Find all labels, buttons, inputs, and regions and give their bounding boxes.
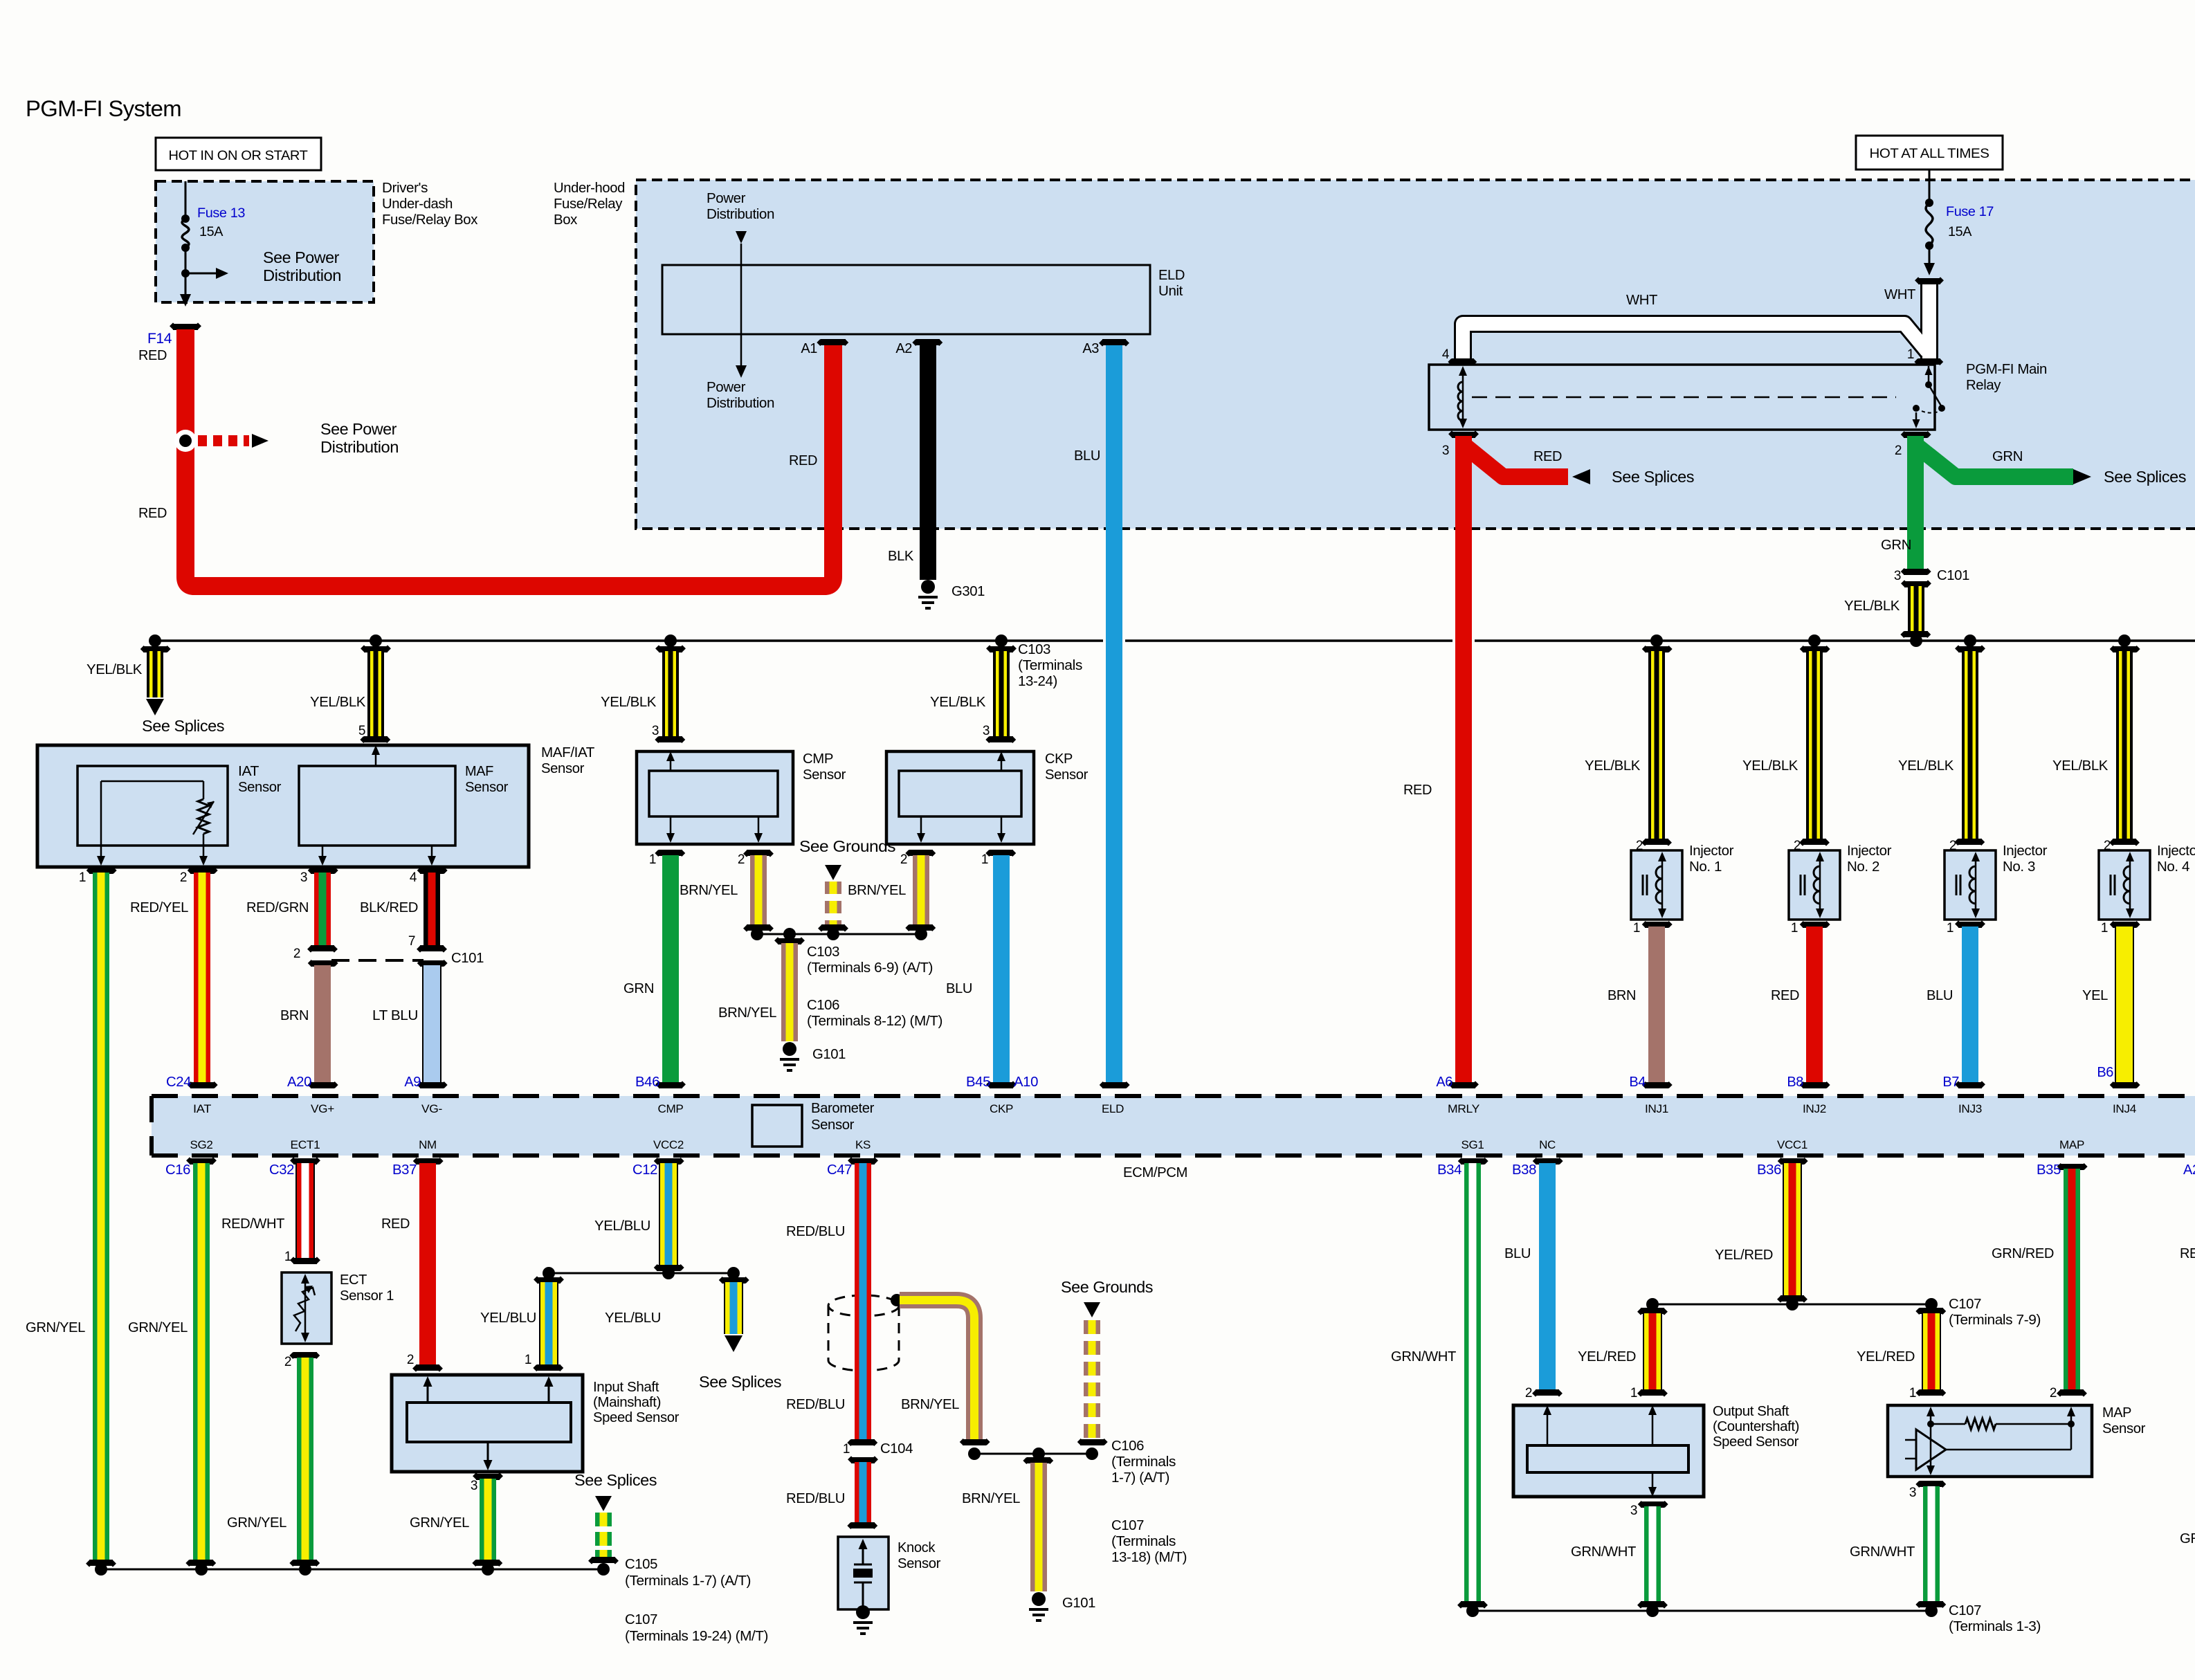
svg-text:Power: Power <box>707 380 746 395</box>
svg-text:CMP: CMP <box>803 751 833 767</box>
header HOT AT ALL TIMES <box>1856 136 2003 170</box>
svg-text:YEL/BLK: YEL/BLK <box>2052 758 2109 774</box>
svg-text:YEL/BLU: YEL/BLU <box>594 1218 650 1234</box>
wire YEL/BLK bus to CMP pin3 <box>664 634 677 647</box>
svg-text:B35: B35 <box>2037 1162 2061 1178</box>
svg-text:MAP: MAP <box>2102 1405 2131 1421</box>
svg-text:Distribution: Distribution <box>320 438 399 456</box>
svg-text:(Terminals 1-3): (Terminals 1-3) <box>1949 1619 2041 1634</box>
svg-text:(Terminals 6-9) (A/T): (Terminals 6-9) (A/T) <box>807 960 933 976</box>
svg-text:BRN: BRN <box>280 1008 309 1023</box>
svg-text:G101: G101 <box>812 1047 846 1062</box>
svg-text:C107: C107 <box>625 1612 657 1627</box>
svg-text:Unit: Unit <box>1158 284 1183 299</box>
svg-text:1: 1 <box>525 1353 531 1367</box>
svg-text:MAF/IAT: MAF/IAT <box>541 745 594 760</box>
svg-text:15A: 15A <box>1948 224 1971 239</box>
svg-text:(Mainshaft): (Mainshaft) <box>593 1395 661 1410</box>
wire LT BLU to A9 <box>417 960 448 967</box>
ground link line C103/C106 <box>757 933 921 935</box>
svg-text:GRN/WHT: GRN/WHT <box>1391 1349 1456 1364</box>
wire BLU injector3 to B7 <box>1962 926 1978 1082</box>
svg-text:Injector: Injector <box>2003 843 2048 859</box>
wire YEL/BLK bus to CKP pin3 <box>995 634 1008 647</box>
svg-text:HOT IN ON OR START: HOT IN ON OR START <box>169 148 308 163</box>
svg-text:B37: B37 <box>392 1162 417 1178</box>
svg-text:GRN: GRN <box>1992 449 2023 464</box>
svg-text:VG+: VG+ <box>311 1102 334 1115</box>
wire YEL/BLK bus to injector 3 <box>1964 634 1976 647</box>
svg-text:Fuse 17: Fuse 17 <box>1946 204 1994 219</box>
svg-text:A1: A1 <box>801 341 817 356</box>
CKP pin arrows <box>997 751 1005 761</box>
svg-text:See Splices: See Splices <box>574 1471 657 1489</box>
svg-text:(Terminals 19-24) (M/T): (Terminals 19-24) (M/T) <box>625 1629 768 1644</box>
svg-text:LT BLU: LT BLU <box>372 1008 418 1023</box>
dashed BRN/YEL C106 splice wire <box>1084 1302 1100 1317</box>
svg-text:GRN/YEL: GRN/YEL <box>128 1320 188 1335</box>
svg-text:Sensor: Sensor <box>803 767 846 783</box>
wire GRN/WHT MAP pin3 to bus <box>1915 1481 1946 1488</box>
svg-text:BRN/YEL: BRN/YEL <box>962 1491 1020 1506</box>
svg-text:15A: 15A <box>199 224 223 239</box>
Output Shaft (Countershaft) Speed Sensor box <box>1513 1405 1704 1497</box>
svg-text:B36: B36 <box>1757 1162 1781 1178</box>
wire RED F14 to A1 (power feed) <box>185 329 833 586</box>
svg-text:No. 2: No. 2 <box>1847 859 1879 875</box>
svg-text:Box: Box <box>554 212 577 228</box>
main YEL/BLK power bus <box>155 639 2195 642</box>
injector No. 3 box <box>1944 850 1996 920</box>
svg-text:SG2: SG2 <box>190 1138 213 1151</box>
MAF/IAT Sensor box <box>37 745 529 867</box>
svg-text:C101: C101 <box>451 951 484 966</box>
svg-text:GRN/YEL: GRN/YEL <box>26 1320 85 1335</box>
wire BLK A2 to G301 <box>920 345 936 580</box>
svg-text:NC: NC <box>1539 1138 1556 1151</box>
wire YEL/BLK C101 to bus <box>1908 586 1924 632</box>
Under-hood Fuse/Relay Box <box>636 180 2195 529</box>
wire BLK/RED pin4 <box>417 867 448 874</box>
svg-text:BLK: BLK <box>888 549 914 564</box>
svg-text:B6: B6 <box>2097 1065 2113 1080</box>
ground bus line (left) <box>101 1569 603 1571</box>
injector No. 2 box <box>1789 850 1840 920</box>
wire BRN injector1 to B4 <box>1648 926 1665 1082</box>
wire BRN/YEL CKP pin2 <box>905 850 936 857</box>
svg-text:PGM-FI Main: PGM-FI Main <box>1966 362 2047 377</box>
Barometer Sensor box <box>752 1105 802 1147</box>
svg-text:C107: C107 <box>1949 1603 1981 1618</box>
CKP inner box <box>899 771 1021 816</box>
svg-text:WHT: WHT <box>1626 293 1657 308</box>
svg-text:RED/WHT: RED/WHT <box>221 1216 284 1232</box>
svg-text:Under-hood: Under-hood <box>554 181 625 196</box>
svg-text:NM: NM <box>419 1138 437 1151</box>
svg-text:5: 5 <box>358 724 365 738</box>
svg-text:C107: C107 <box>1111 1518 1144 1533</box>
svg-text:Sensor: Sensor <box>1045 767 1089 783</box>
svg-text:C105: C105 <box>625 1557 657 1572</box>
svg-text:ELD: ELD <box>1102 1102 1124 1115</box>
wire BRN/YEL link to G101 <box>1023 1457 1053 1464</box>
YEL/BLU splice link line <box>549 1272 734 1275</box>
svg-text:C47: C47 <box>827 1162 852 1178</box>
svg-text:See Splices: See Splices <box>142 717 224 735</box>
svg-text:GRN: GRN <box>623 981 654 996</box>
relay switch contacts <box>1928 366 1930 382</box>
MAP internal opamp circuit <box>1927 1407 1935 1416</box>
svg-text:2: 2 <box>1895 444 1902 458</box>
svg-text:1: 1 <box>1791 921 1798 935</box>
svg-text:1: 1 <box>1907 347 1914 362</box>
svg-text:YEL/BLK: YEL/BLK <box>1585 758 1641 774</box>
svg-text:2: 2 <box>738 852 745 867</box>
svg-text:BRN/YEL: BRN/YEL <box>718 1005 776 1021</box>
svg-text:GRN/WHT: GRN/WHT <box>1571 1544 1636 1560</box>
svg-text:ECT: ECT <box>340 1272 367 1288</box>
svg-text:Sensor: Sensor <box>238 780 282 795</box>
svg-text:2: 2 <box>900 852 907 867</box>
svg-text:1: 1 <box>1633 921 1640 935</box>
svg-text:C103: C103 <box>807 944 839 960</box>
wire GRN/WHT output pin3 to bus <box>1638 1501 1668 1508</box>
relay PGM-FI Main Relay box <box>1429 365 1935 430</box>
wire GRN relay pin2 to C101 <box>1918 447 2073 477</box>
knock sensor capacitor symbol <box>859 1539 868 1549</box>
wire BLU A3 to ELD pin (A10) <box>1106 345 1122 1082</box>
svg-text:YEL/BLK: YEL/BLK <box>1898 758 1954 774</box>
svg-text:GRN/WHT: GRN/WHT <box>1850 1544 1915 1560</box>
svg-text:G101: G101 <box>1062 1596 1095 1611</box>
wire RED/BLU C104 to knock sensor <box>855 1462 871 1524</box>
Knock Sensor box <box>838 1537 889 1609</box>
svg-text:RED/BLU: RED/BLU <box>786 1224 845 1239</box>
output shaft inner box <box>1527 1445 1688 1472</box>
svg-text:Driver's: Driver's <box>382 181 428 196</box>
svg-text:Sensor: Sensor <box>2102 1421 2146 1436</box>
svg-text:B38: B38 <box>1512 1162 1536 1178</box>
svg-text:C32: C32 <box>269 1162 294 1178</box>
svg-text:YEL/BLK: YEL/BLK <box>310 695 366 710</box>
dashed red arrow See Power Distribution <box>198 435 249 446</box>
relay coil <box>1462 373 1464 422</box>
output shaft pin arrows <box>1543 1405 1551 1415</box>
svg-text:F14: F14 <box>147 331 172 347</box>
svg-text:7: 7 <box>408 934 415 949</box>
svg-text:IAT: IAT <box>193 1102 211 1115</box>
Driver's Under-dash Fuse/Relay Box <box>156 181 374 302</box>
svg-text:3: 3 <box>652 724 659 738</box>
svg-text:RED: RED <box>138 348 167 363</box>
wire RED/YEL pin2 to C24 <box>188 867 218 874</box>
svg-text:MAP: MAP <box>2059 1138 2084 1151</box>
svg-text:See Splices: See Splices <box>699 1373 781 1391</box>
ground G101 (bottom) <box>1032 1592 1046 1606</box>
svg-text:C12: C12 <box>632 1162 657 1178</box>
wire BRN/YEL to G101 <box>774 937 805 944</box>
wire YEL/BLK to MAF pin 5 <box>370 634 382 647</box>
svg-text:3: 3 <box>1894 569 1901 583</box>
header HOT IN ON OR START <box>156 138 321 170</box>
svg-text:Fuse 13: Fuse 13 <box>197 206 245 221</box>
ground G101 <box>783 1042 796 1056</box>
svg-text:BRN: BRN <box>1607 988 1636 1003</box>
svg-text:A20: A20 <box>287 1075 311 1090</box>
svg-text:(Countershaft): (Countershaft) <box>1713 1419 1799 1434</box>
svg-text:CKP: CKP <box>990 1102 1013 1115</box>
svg-text:1-7) (A/T): 1-7) (A/T) <box>1111 1470 1169 1486</box>
svg-text:3: 3 <box>300 870 307 885</box>
svg-text:Distribution: Distribution <box>707 396 774 411</box>
svg-text:Sensor: Sensor <box>465 780 509 795</box>
svg-text:RED/GRN: RED/GRN <box>246 900 309 915</box>
wire GRN/RED B35/MAP to MAP pin2 <box>2057 1163 2088 1170</box>
wire YEL/RED B36/VCC1 to link <box>1778 1158 1808 1165</box>
svg-text:Injector: Injector <box>1847 843 1892 859</box>
svg-text:GRN/YEL: GRN/YEL <box>227 1515 286 1531</box>
wire YEL/BLU C12 to splice link <box>654 1158 684 1165</box>
svg-text:RED: RED <box>138 506 167 521</box>
svg-text:C101: C101 <box>1937 568 1969 583</box>
svg-text:KS: KS <box>855 1138 871 1151</box>
svg-text:A3: A3 <box>1082 341 1099 356</box>
svg-text:3: 3 <box>471 1479 477 1493</box>
svg-text:C24: C24 <box>166 1075 191 1090</box>
svg-text:RED: RED <box>1533 449 1562 464</box>
svg-text:3: 3 <box>1630 1504 1637 1518</box>
wire BRN/YEL CMP pin2 <box>743 850 774 857</box>
svg-text:(Terminals: (Terminals <box>1111 1454 1176 1470</box>
svg-text:GRN/YEL: GRN/YEL <box>410 1515 469 1531</box>
svg-text:GRN: GRN <box>1881 538 1911 553</box>
svg-text:Speed Sensor: Speed Sensor <box>593 1410 680 1425</box>
svg-text:C106: C106 <box>1111 1439 1144 1454</box>
wire YEL/BLU link to See Splices <box>719 1277 749 1284</box>
svg-text:1: 1 <box>1630 1386 1637 1400</box>
svg-text:INJ2: INJ2 <box>1803 1102 1826 1115</box>
svg-text:1: 1 <box>2101 921 2108 935</box>
svg-text:1: 1 <box>284 1250 291 1264</box>
svg-text:Relay: Relay <box>1966 378 2001 393</box>
svg-text:RED: RED <box>789 453 817 468</box>
sensor ground bus (right) <box>1473 1610 1931 1612</box>
wire RED/WHT C32 to ECT sensor <box>290 1157 320 1165</box>
svg-text:CKP: CKP <box>1045 751 1073 767</box>
input shaft inner box <box>407 1403 571 1442</box>
KS ground link line <box>974 1453 1092 1455</box>
svg-text:YEL/BLK: YEL/BLK <box>1844 599 1900 614</box>
svg-text:INJ1: INJ1 <box>1645 1102 1668 1115</box>
svg-text:13-18) (M/T): 13-18) (M/T) <box>1111 1550 1187 1565</box>
injector No. 1 box <box>1631 850 1682 920</box>
svg-text:13-24): 13-24) <box>1018 674 1057 689</box>
svg-text:1: 1 <box>79 870 86 885</box>
svg-text:See Splices: See Splices <box>2104 468 2186 486</box>
CKP Sensor box <box>886 751 1034 844</box>
svg-text:YEL/BLK: YEL/BLK <box>601 695 657 710</box>
svg-text:Distribution: Distribution <box>707 207 774 222</box>
shield drain junction <box>891 1294 903 1306</box>
svg-text:VG-: VG- <box>421 1102 442 1115</box>
svg-text:Output Shaft: Output Shaft <box>1713 1404 1789 1419</box>
svg-text:BLU: BLU <box>1927 988 1953 1003</box>
VCC1 link line C107(7-9) <box>1652 1304 1931 1306</box>
svg-text:YEL: YEL <box>2082 988 2108 1003</box>
connector C101 pin 3 (GRN to YEL/BLK) <box>1901 568 1931 575</box>
svg-text:A2: A2 <box>895 341 912 356</box>
wire RED crossing bus (MRLY) <box>1452 637 1475 645</box>
svg-text:Sensor: Sensor <box>811 1117 855 1133</box>
svg-text:VCC1: VCC1 <box>1777 1138 1807 1151</box>
svg-text:Sensor: Sensor <box>898 1556 941 1571</box>
svg-text:B34: B34 <box>1437 1162 1461 1178</box>
svg-text:Speed Sensor: Speed Sensor <box>1713 1434 1799 1450</box>
svg-text:C104: C104 <box>880 1441 913 1457</box>
dashed BRN/YEL ground splice <box>825 865 841 880</box>
relay internal dashed line <box>1472 396 1896 399</box>
svg-text:BRN/YEL: BRN/YEL <box>680 883 738 898</box>
svg-text:Input Shaft: Input Shaft <box>593 1380 659 1395</box>
svg-text:C16: C16 <box>165 1162 190 1178</box>
svg-text:4: 4 <box>410 870 417 885</box>
knock sensor ground <box>856 1605 870 1619</box>
svg-text:1: 1 <box>981 852 988 867</box>
svg-text:WHT: WHT <box>1884 287 1915 302</box>
svg-text:Injector: Injector <box>1689 843 1734 859</box>
svg-text:Barometer: Barometer <box>811 1101 875 1116</box>
fuse F13 circuit <box>185 181 187 219</box>
svg-text:G301: G301 <box>951 584 985 599</box>
svg-text:2: 2 <box>284 1355 291 1369</box>
svg-text:Sensor 1: Sensor 1 <box>340 1288 394 1304</box>
svg-text:HOT AT ALL TIMES: HOT AT ALL TIMES <box>1870 146 1989 161</box>
wire RED B37/NM to input shaft sensor <box>413 1158 444 1165</box>
svg-text:(Terminals 1-7) (A/T): (Terminals 1-7) (A/T) <box>625 1573 751 1589</box>
wire YEL/BLK bus to injector 2 <box>1808 634 1821 647</box>
svg-text:Distribution: Distribution <box>263 266 341 284</box>
IAT thermistor circuit <box>100 781 102 846</box>
svg-text:3: 3 <box>983 724 990 738</box>
svg-text:B4: B4 <box>1629 1075 1646 1090</box>
svg-text:No. 4: No. 4 <box>2157 859 2189 875</box>
svg-text:(Terminals 8-12) (M/T): (Terminals 8-12) (M/T) <box>807 1014 942 1029</box>
svg-text:See Splices: See Splices <box>1612 468 1694 486</box>
svg-text:SG1: SG1 <box>1461 1138 1484 1151</box>
svg-text:INJ4: INJ4 <box>2113 1102 2136 1115</box>
svg-text:RED: RED <box>381 1216 410 1232</box>
svg-text:Under-dash: Under-dash <box>382 197 453 212</box>
svg-text:YEL/RED: YEL/RED <box>1857 1349 1915 1364</box>
svg-text:Fuse/Relay Box: Fuse/Relay Box <box>382 212 477 228</box>
svg-text:RED/YEL: RED/YEL <box>130 900 188 915</box>
svg-text:2: 2 <box>407 1353 414 1367</box>
svg-text:B8: B8 <box>1787 1075 1803 1090</box>
svg-text:GRN/RED: GRN/RED <box>1992 1246 2054 1261</box>
svg-text:IAT: IAT <box>238 764 259 779</box>
wire YEL injector4 to B6 <box>2115 926 2134 1082</box>
splice junction on RED wire <box>174 430 197 452</box>
IAT Sensor inner box <box>78 766 228 846</box>
svg-text:RED/BLU: RED/BLU <box>786 1491 845 1506</box>
wire BLU B38/NC to output shaft pin2 <box>1533 1158 1563 1165</box>
wire GRN CMP pin1 to B46 <box>655 850 685 857</box>
svg-text:No. 3: No. 3 <box>2003 859 2035 875</box>
wire BRN to A20 <box>308 960 338 967</box>
wire GRN/YEL input shaft pin3 to ground bus <box>473 1472 503 1480</box>
MAP Sensor box <box>1888 1405 2092 1477</box>
svg-text:CMP: CMP <box>658 1102 684 1115</box>
svg-text:1: 1 <box>843 1442 850 1457</box>
svg-text:YEL/BLK: YEL/BLK <box>1742 758 1798 774</box>
svg-text:PGM-FI System: PGM-FI System <box>26 96 181 121</box>
svg-text:See Power: See Power <box>320 420 397 438</box>
svg-text:B46: B46 <box>635 1075 659 1090</box>
svg-text:VCC2: VCC2 <box>653 1138 684 1151</box>
svg-text:2: 2 <box>180 870 187 885</box>
svg-text:C107: C107 <box>1949 1297 1981 1312</box>
wire WHT fuse17 to relay pins 1 and 4 <box>1920 282 1938 360</box>
svg-text:INJ3: INJ3 <box>1958 1102 1982 1115</box>
svg-text:BRN/YEL: BRN/YEL <box>848 883 906 898</box>
wire YEL/BLU link to input shaft pin1 <box>534 1276 564 1284</box>
svg-text:1: 1 <box>649 852 656 867</box>
svg-text:2: 2 <box>1525 1386 1532 1400</box>
svg-text:RED: RED <box>1771 988 1799 1003</box>
svg-text:Sensor: Sensor <box>541 761 585 776</box>
svg-text:C103: C103 <box>1018 642 1050 657</box>
svg-text:B7: B7 <box>1942 1075 1959 1090</box>
svg-text:BRN/YEL: BRN/YEL <box>901 1397 959 1412</box>
svg-text:(Terminals: (Terminals <box>1111 1534 1176 1549</box>
svg-text:A6: A6 <box>1436 1075 1452 1090</box>
svg-text:No. 1: No. 1 <box>1689 859 1722 875</box>
svg-text:(Terminals 7-9): (Terminals 7-9) <box>1949 1313 2041 1328</box>
wire RED injector2 to B8 <box>1806 926 1823 1082</box>
svg-text:BLU: BLU <box>946 981 972 996</box>
wire RED relay pin3 to MRLY/A6 <box>1466 447 1568 477</box>
svg-text:2: 2 <box>293 947 300 961</box>
svg-text:GRN: GRN <box>2180 1531 2195 1546</box>
svg-text:A9: A9 <box>404 1075 421 1090</box>
ELD Unit box <box>662 265 1150 334</box>
wire GRN/WHT B34/SG1 to sensor ground bus <box>1458 1158 1488 1165</box>
svg-text:See Grounds: See Grounds <box>799 837 895 855</box>
svg-text:YEL/BLK: YEL/BLK <box>930 695 986 710</box>
svg-text:Power: Power <box>707 191 746 206</box>
svg-text:3: 3 <box>1909 1486 1916 1500</box>
svg-text:BLU: BLU <box>1504 1246 1531 1261</box>
wire BLU crossing bus (ELD) <box>1103 637 1125 645</box>
svg-text:YEL/RED: YEL/RED <box>1715 1248 1773 1263</box>
Input Shaft (Mainshaft) Speed Sensor box <box>392 1375 583 1472</box>
svg-text:See Grounds: See Grounds <box>1061 1278 1153 1296</box>
svg-text:2: 2 <box>2050 1386 2057 1400</box>
wire YEL/RED link to output shaft pin1 <box>1637 1308 1668 1315</box>
wire YEL/BLK bus to injector 1 <box>1650 634 1663 647</box>
svg-text:BLU: BLU <box>1074 448 1100 464</box>
injector No. 4 box <box>2099 850 2150 920</box>
MAF Sensor inner box <box>299 766 455 846</box>
svg-text:YEL/RED: YEL/RED <box>1578 1349 1636 1364</box>
CMP Sensor box <box>637 751 793 844</box>
svg-text:C106: C106 <box>807 998 839 1013</box>
wire RED/BLU C47/KS to knock sensor <box>848 1157 878 1165</box>
svg-text:(Terminals: (Terminals <box>1018 658 1082 673</box>
svg-text:3: 3 <box>1442 444 1449 458</box>
ECT Sensor 1 box <box>282 1272 331 1344</box>
svg-text:ELD: ELD <box>1158 268 1185 283</box>
